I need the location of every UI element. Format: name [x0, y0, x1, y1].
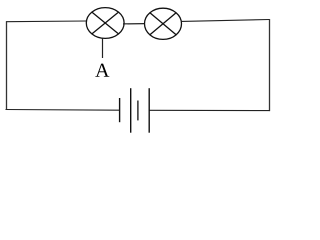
wire: [123, 23, 145, 25]
battery B1: [120, 88, 150, 133]
wire: [6, 21, 8, 110]
wire: [182, 20, 270, 22]
wire: [6, 20, 87, 23]
lamp L1: [86, 8, 124, 39]
wire: [149, 109, 270, 111]
node A: [95, 38, 109, 77]
lamp L2: [145, 8, 182, 39]
wire: [269, 19, 271, 111]
wire: [6, 109, 120, 112]
